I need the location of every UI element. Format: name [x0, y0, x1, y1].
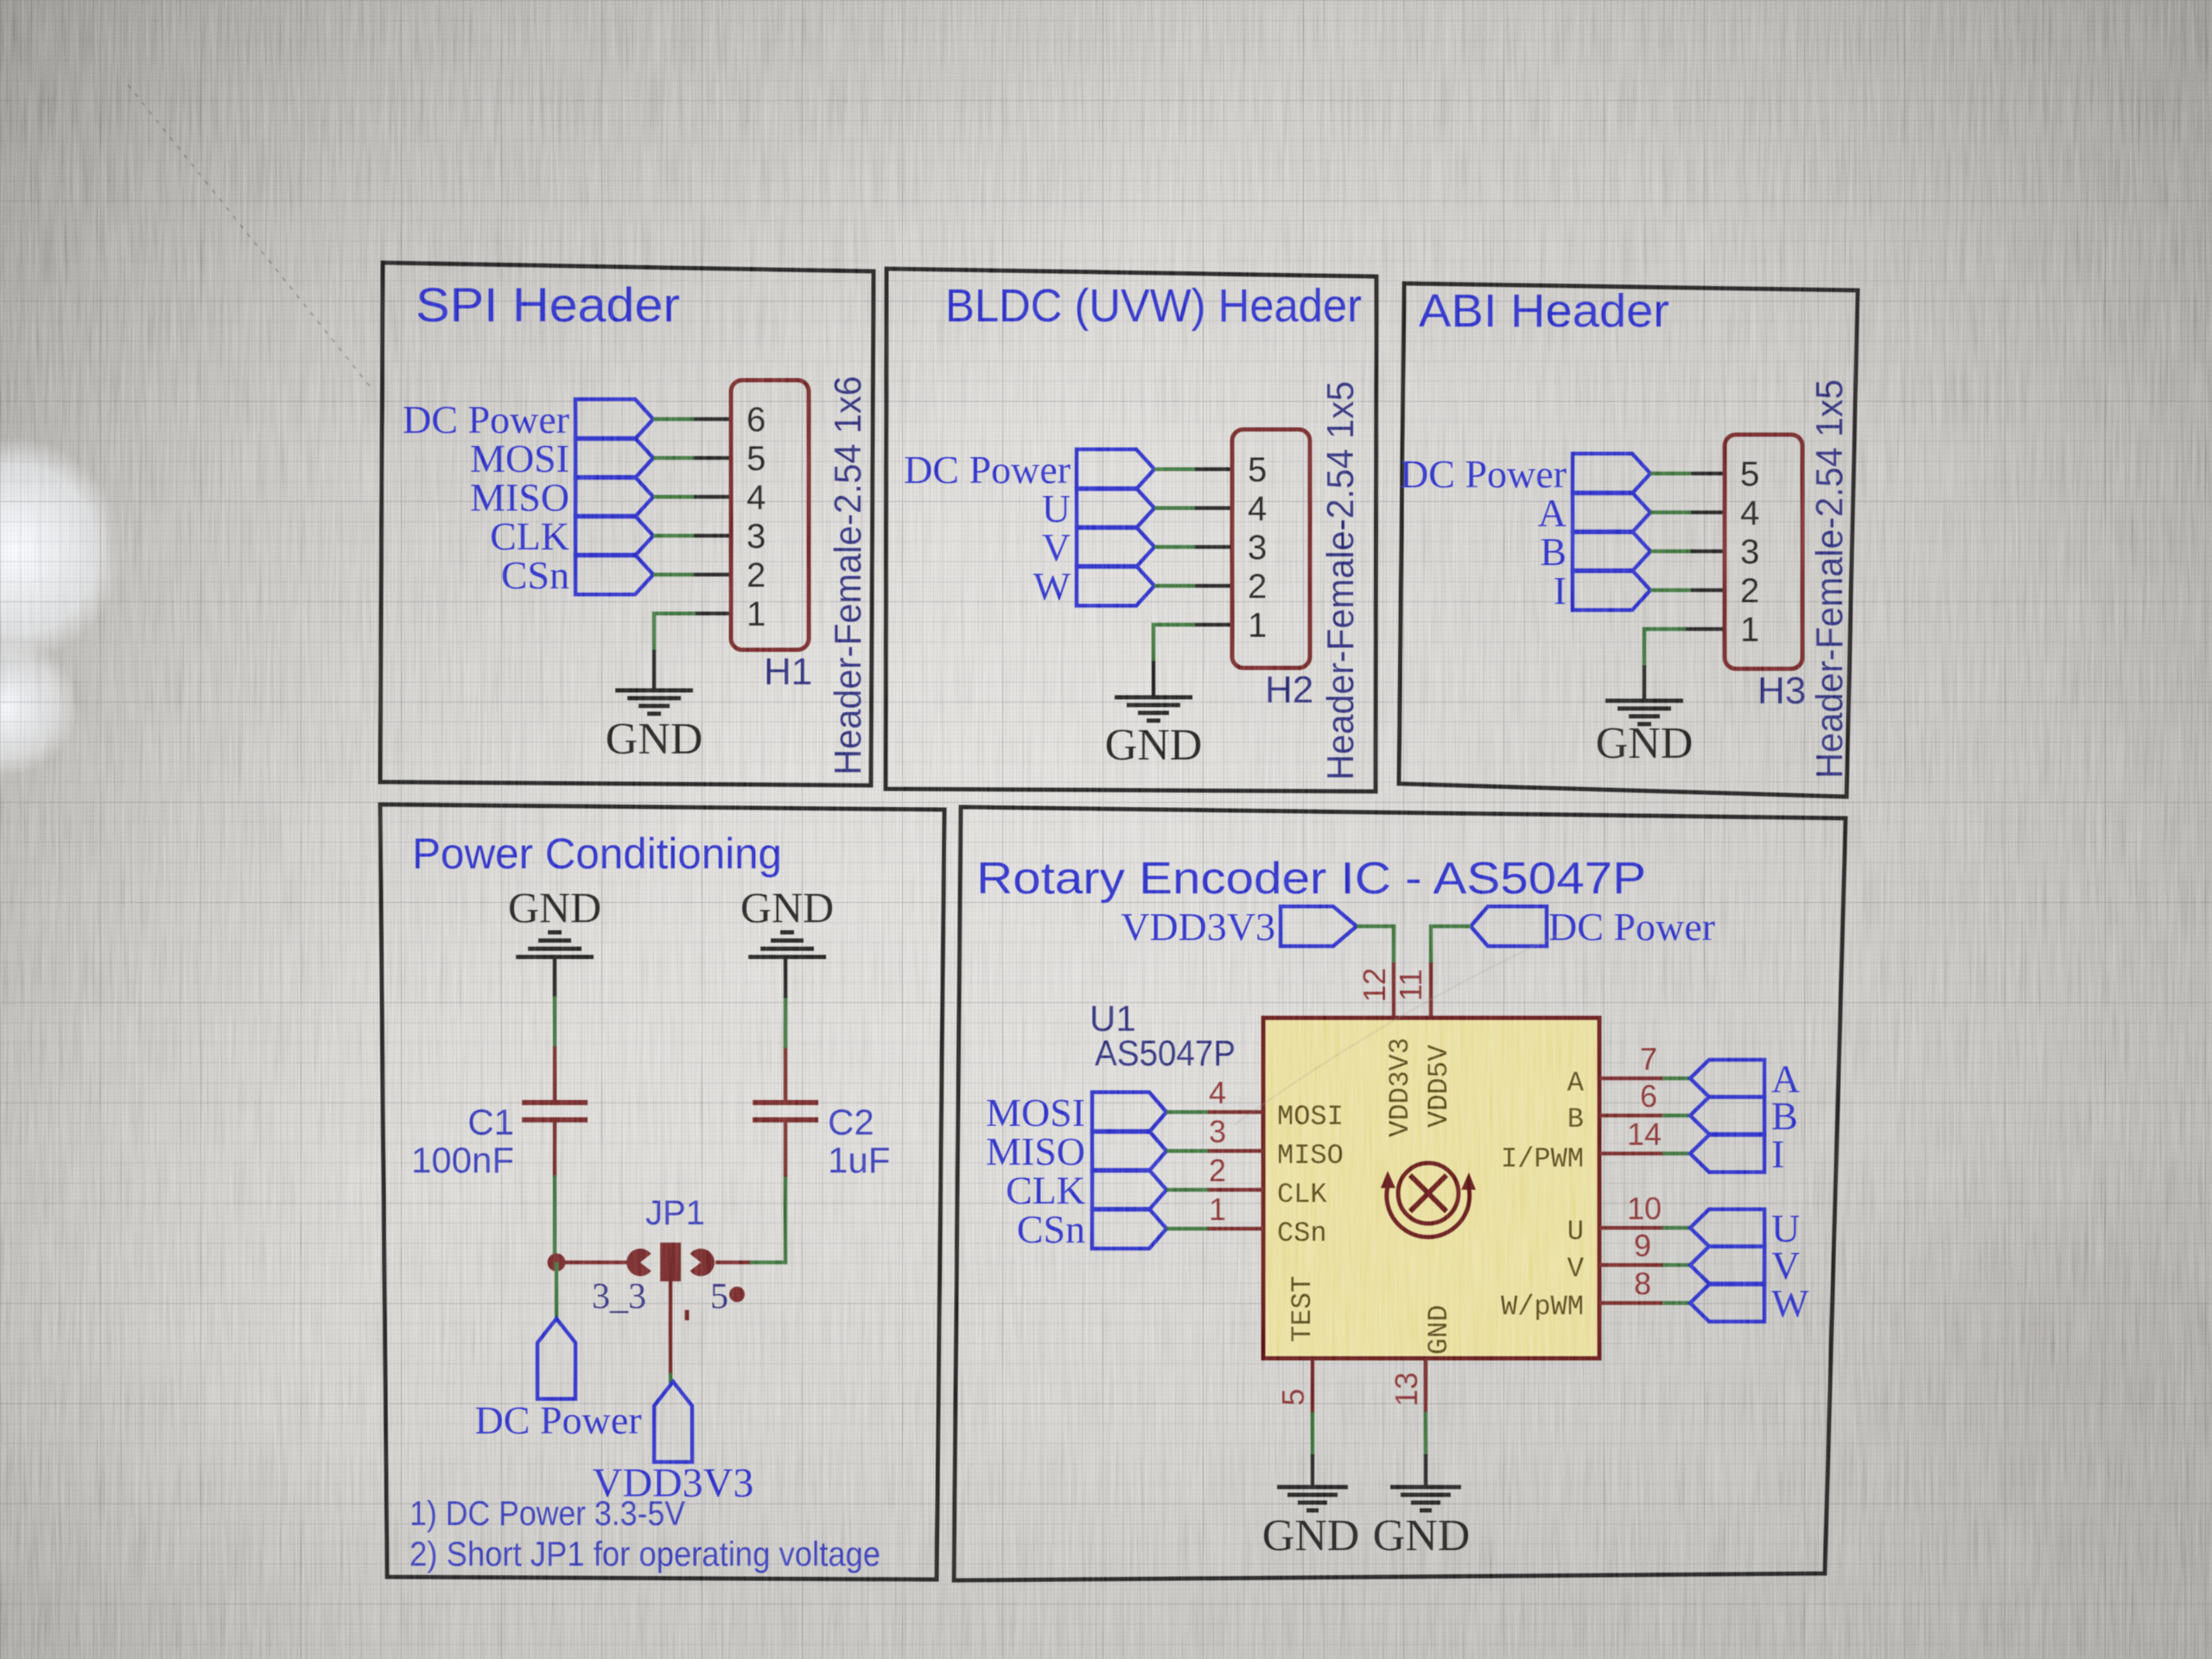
- net flag V (output): [1690, 1243, 1800, 1287]
- net flag U (output): [1690, 1206, 1800, 1250]
- wire: [1154, 545, 1195, 550]
- net flag MISO (U1 side): [986, 1129, 1166, 1173]
- net flag CLK (H1): [490, 514, 653, 558]
- wire: [750, 1175, 785, 1262]
- wire: [1357, 926, 1394, 964]
- wire: [1166, 1188, 1210, 1192]
- net flag W (H2): [1033, 564, 1154, 608]
- pin 2 of H2: [1195, 568, 1267, 606]
- wire (pin 1 to ground): [1193, 623, 1232, 627]
- power port DC Power (top): [1471, 905, 1715, 949]
- net flag V (H2): [1042, 525, 1154, 569]
- wire: [555, 1262, 559, 1320]
- section box: BLDC (UVW) Header: [886, 269, 1376, 791]
- net flag A (H3): [1538, 491, 1650, 535]
- wire: [1424, 1412, 1428, 1456]
- power port VDD3V3: [593, 1382, 754, 1506]
- pin 2 of C2: [784, 1120, 788, 1177]
- wire: [654, 613, 696, 652]
- pin 5 of H2: [1195, 451, 1267, 489]
- net flag CLK (U1 side): [1006, 1168, 1166, 1212]
- wire: [1662, 1226, 1690, 1230]
- pin 7 of U1: [1599, 1041, 1664, 1078]
- pin 8 of U1: [1599, 1266, 1664, 1303]
- ground (GND pin): [1373, 1487, 1471, 1560]
- pin 12 of U1: [1357, 963, 1394, 1018]
- junction: [548, 1254, 566, 1272]
- wire: [1643, 665, 1647, 701]
- wire: [715, 1261, 752, 1265]
- scratch hairline (photo artifact): [128, 85, 373, 391]
- wire: [1154, 467, 1195, 472]
- wire: [553, 957, 557, 998]
- net flag MOSI (U1 side): [986, 1090, 1166, 1135]
- ground (above C2): [741, 883, 834, 957]
- section box: SPI Header: [380, 263, 874, 785]
- wire: [669, 1373, 673, 1383]
- pin 4 of H3: [1691, 494, 1759, 532]
- wire: [1166, 1110, 1210, 1115]
- pin 11 of U1: [1393, 963, 1431, 1018]
- pin 1 of C2: [784, 1046, 788, 1104]
- connector H1: [731, 380, 812, 693]
- pin 3 of H1: [694, 518, 766, 556]
- net flag CSn (U1 side): [1017, 1207, 1166, 1251]
- net flag B (H3): [1540, 530, 1650, 574]
- wire: [1154, 506, 1195, 511]
- section box: ABI Header: [1399, 283, 1858, 797]
- net flag DC Power (H1): [403, 397, 653, 442]
- pin 5 label of JP1: [710, 1277, 745, 1317]
- connector H2: [1232, 429, 1313, 711]
- pin 6 of H1: [694, 401, 766, 439]
- net flag DC Power (H2): [904, 448, 1154, 492]
- wire: [1311, 1454, 1315, 1487]
- section box: Rotary Encoder IC - AS5047P: [954, 807, 1846, 1580]
- section box: Power Conditioning: [380, 804, 944, 1580]
- pin 13 of U1: [1389, 1358, 1426, 1414]
- wire: [553, 1175, 557, 1264]
- wire: [1662, 1301, 1690, 1306]
- ground (H3): [1596, 701, 1694, 768]
- power port DC Power: [475, 1319, 642, 1442]
- wire: [1166, 1149, 1210, 1154]
- pin 5 of U1: [1275, 1358, 1313, 1414]
- wire: [784, 996, 788, 1048]
- pin 1 marker of JP1: [685, 1310, 690, 1320]
- net flag W (output): [1690, 1281, 1809, 1325]
- pin 2 of U1: [1208, 1153, 1263, 1190]
- pin 1 of C1: [553, 1046, 557, 1104]
- pin 2 of H1: [694, 556, 766, 594]
- pin 14 of U1: [1599, 1116, 1664, 1154]
- pin 9 of U1: [1599, 1228, 1664, 1265]
- pin 1 of U1: [1208, 1192, 1263, 1229]
- wire: [1662, 1263, 1690, 1268]
- net flag I (H3): [1554, 569, 1650, 613]
- wire: [1644, 629, 1686, 667]
- power port VDD3V3 (top): [1121, 905, 1357, 949]
- wire: [652, 650, 657, 690]
- jumper JP1: [626, 1194, 715, 1281]
- net flag A (output): [1690, 1057, 1800, 1101]
- net flag U (H2): [1042, 486, 1154, 531]
- wire: [556, 1261, 629, 1265]
- wire: [653, 495, 694, 499]
- wire: [1166, 1227, 1210, 1231]
- wire: [1154, 625, 1195, 663]
- pin 3 of U1: [1208, 1114, 1263, 1151]
- wire: [1311, 1412, 1315, 1456]
- wire: [1431, 926, 1471, 964]
- wire: [653, 534, 694, 538]
- wire: [1154, 584, 1195, 588]
- rotary encoder symbol: [1381, 1163, 1476, 1237]
- wire: [1662, 1152, 1690, 1156]
- wire: [1662, 1114, 1690, 1118]
- ground (above C1): [508, 883, 601, 957]
- pin 3 of H3: [1691, 533, 1759, 571]
- net flag I (output): [1690, 1132, 1784, 1176]
- wire: [653, 417, 694, 422]
- wire: [1650, 550, 1691, 554]
- wire: [784, 957, 788, 998]
- wire: [553, 996, 557, 1048]
- wire: [1424, 1454, 1428, 1487]
- capacitor C2: [753, 1102, 874, 1142]
- pin 5 of H3: [1691, 455, 1759, 493]
- op-amp U1 AS5047P body: [1263, 1018, 1599, 1358]
- connector H3: [1725, 435, 1806, 712]
- scratch hairline (photo artifact): [1234, 931, 1566, 1125]
- net flag MISO (H1): [470, 475, 653, 519]
- wire (pin 1 to ground): [694, 612, 731, 616]
- ground (H1): [606, 690, 703, 764]
- net flag CSn (H1): [501, 553, 653, 597]
- wire (pin 1 to ground): [1684, 627, 1725, 632]
- wire: [1152, 661, 1156, 697]
- net flag MOSI (H1): [470, 436, 653, 480]
- pin 5 of H1: [694, 440, 766, 478]
- pin 2 of C1: [553, 1120, 557, 1177]
- pin 6 of U1: [1599, 1078, 1664, 1116]
- wire: [653, 456, 694, 461]
- pin 4 of H1: [694, 479, 766, 517]
- wire: [1662, 1077, 1690, 1081]
- pin 4 of H2: [1195, 490, 1267, 528]
- capacitor C1: [467, 1102, 588, 1142]
- pin 3 of H2: [1195, 529, 1267, 567]
- wire: [1650, 472, 1691, 476]
- net flag B (output): [1690, 1094, 1798, 1138]
- wire: [1650, 511, 1691, 515]
- ground (H2): [1105, 697, 1203, 770]
- pin 2 of JP1: [669, 1281, 673, 1375]
- wire: [1650, 588, 1691, 593]
- pin 10 of U1: [1599, 1191, 1664, 1228]
- pin 4 of U1: [1208, 1075, 1263, 1112]
- pin 2 of H3: [1691, 572, 1759, 610]
- ground (TEST pin): [1262, 1487, 1360, 1560]
- net flag DC Power (H3): [1400, 452, 1650, 496]
- wire: [653, 573, 694, 577]
